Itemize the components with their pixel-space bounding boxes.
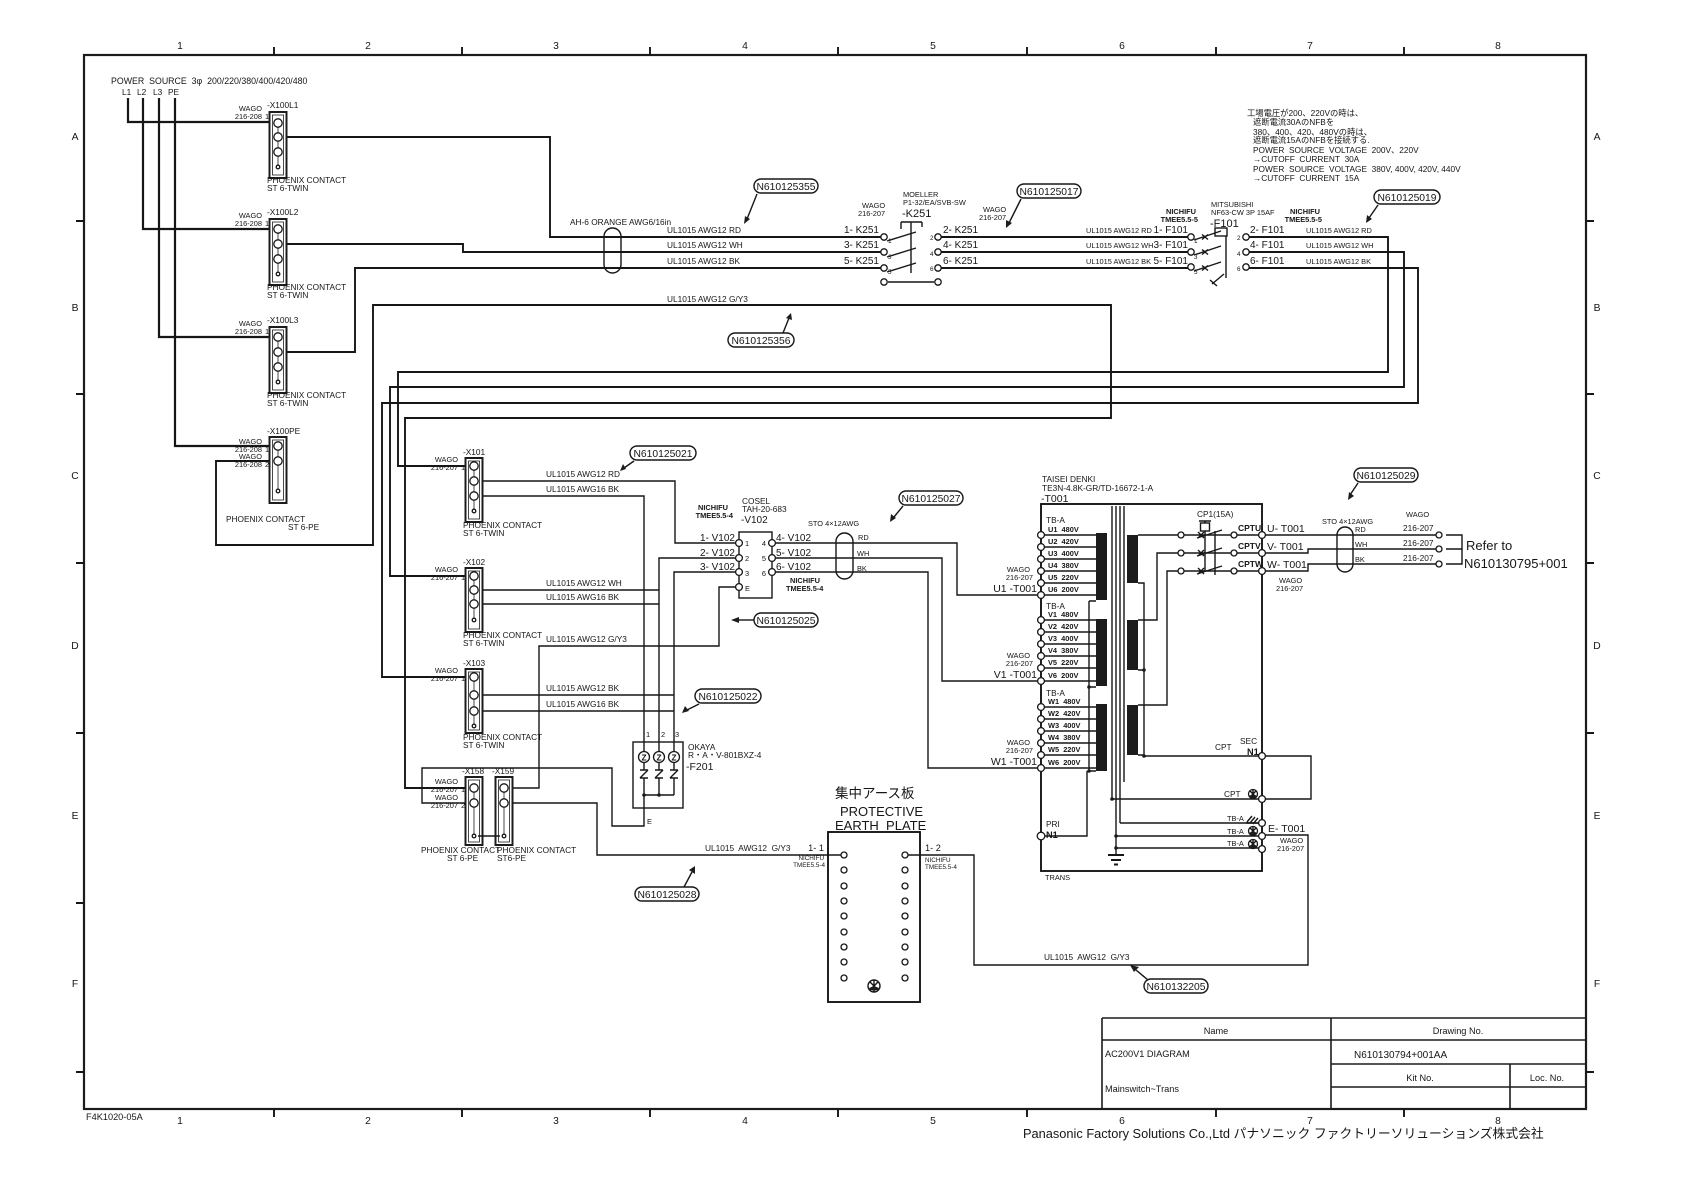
svg-text:Refer to: Refer to — [1466, 538, 1512, 553]
svg-text:216-207: 216-207 — [431, 573, 458, 582]
svg-text:216-207: 216-207 — [431, 463, 458, 472]
wago labels T001 U — [993, 565, 1037, 595]
title block — [1102, 1018, 1585, 1109]
svg-text:PROTECTIVE: PROTECTIVE — [840, 804, 923, 819]
svg-text:2: 2 — [461, 801, 465, 810]
svg-text:1- F101: 1- F101 — [1154, 225, 1189, 236]
wago 216-207 output labels — [1403, 510, 1434, 563]
svg-text:V1 480V: V1 480V — [1048, 610, 1078, 619]
svg-text:UL1015 AWG16 BK: UL1015 AWG16 BK — [546, 484, 619, 494]
wire X101 pin3 BK16 to F201 pin1 — [482, 496, 644, 752]
svg-text:216-208: 216-208 — [235, 112, 262, 121]
svg-text:-X100L2: -X100L2 — [267, 207, 299, 217]
svg-text:Panasonic Factory Solutions Co: Panasonic Factory Solutions Co.,Ltd パナソニ… — [1023, 1126, 1544, 1141]
connector X100L2 — [235, 207, 346, 300]
svg-text:TE3N-4.8K-GR/TD-16672-1-A: TE3N-4.8K-GR/TD-16672-1-A — [1042, 483, 1154, 493]
wire earth plate 1-2 to E-T001 — [908, 835, 1308, 965]
svg-text:Name: Name — [1204, 1026, 1229, 1036]
svg-text:NF63-CW 3P 15AF: NF63-CW 3P 15AF — [1211, 208, 1275, 217]
svg-text:U4 380V: U4 380V — [1048, 561, 1079, 570]
svg-text:5- K251: 5- K251 — [844, 256, 879, 267]
svg-text:集中アース板: 集中アース板 — [835, 786, 915, 801]
svg-text:E- T001: E- T001 — [1268, 823, 1305, 835]
svg-text:B: B — [1594, 303, 1601, 314]
svg-text:W1 -T001: W1 -T001 — [991, 756, 1037, 768]
svg-text:3- V102: 3- V102 — [700, 562, 735, 573]
connector X102 — [431, 557, 542, 648]
svg-text:V5 220V: V5 220V — [1048, 658, 1078, 667]
svg-text:TMEE5.5-4: TMEE5.5-4 — [696, 511, 734, 520]
wire W-T001 output — [1265, 564, 1436, 571]
svg-text:U- T001: U- T001 — [1267, 523, 1305, 535]
svg-text:D: D — [71, 641, 78, 652]
svg-text:→CUTOFF CURRENT 15A: →CUTOFF CURRENT 15A — [1253, 173, 1360, 183]
svg-text:2: 2 — [661, 730, 665, 739]
svg-text:E: E — [647, 817, 652, 826]
wire F101 output BK to X103 — [382, 268, 1418, 677]
svg-text:遮断電流30AのNFBを: 遮断電流30AのNFBを — [1253, 117, 1334, 127]
svg-text:216-207: 216-207 — [979, 213, 1006, 222]
svg-text:216-207: 216-207 — [1006, 573, 1033, 582]
svg-text:POWER SOURCE 3φ 200/220/380: POWER SOURCE 3φ 200/220/380/400/420/480 — [111, 76, 308, 86]
svg-text:UL1015 AWG12 BK: UL1015 AWG12 BK — [546, 683, 619, 693]
callout N610125029 — [1348, 468, 1418, 500]
svg-text:CPTV: CPTV — [1238, 541, 1261, 551]
svg-text:UL1015 AWG12 WH: UL1015 AWG12 WH — [1306, 241, 1374, 250]
svg-text:1: 1 — [177, 1116, 183, 1127]
svg-text:A: A — [1594, 132, 1601, 143]
wire X100L1 pin2 to K251 RD row — [284, 137, 881, 237]
cable marker STO 4x12AWG right — [1322, 517, 1373, 572]
svg-text:ST6-PE: ST6-PE — [497, 853, 527, 863]
wire F101 output RD to X101 — [398, 237, 1388, 466]
svg-text:4: 4 — [742, 41, 748, 52]
svg-text:W4 380V: W4 380V — [1048, 733, 1081, 742]
svg-text:N610125017: N610125017 — [1020, 187, 1079, 198]
svg-text:P1-32/EA/SVB-SW: P1-32/EA/SVB-SW — [903, 198, 966, 207]
svg-text:C: C — [71, 471, 79, 482]
svg-text:Z: Z — [671, 753, 676, 763]
svg-text:3- F101: 3- F101 — [1154, 240, 1189, 251]
wire X159 pin2 to earth plate — [512, 803, 841, 855]
svg-text:TB-A: TB-A — [1046, 515, 1065, 525]
svg-text:6- F101: 6- F101 — [1250, 256, 1285, 267]
output terminal circles — [1436, 532, 1442, 567]
transformer T001 outline — [1041, 474, 1262, 882]
refer to text — [1464, 538, 1568, 571]
svg-text:PRI: PRI — [1046, 819, 1060, 829]
svg-text:TMEE5.5-4: TMEE5.5-4 — [793, 862, 825, 869]
wire PE — [175, 98, 271, 446]
svg-text:N610125356: N610125356 — [732, 336, 791, 347]
svg-text:N610125022: N610125022 — [699, 692, 758, 703]
svg-text:5- F101: 5- F101 — [1154, 256, 1189, 267]
svg-text:UL1015 AWG12 WH: UL1015 AWG12 WH — [667, 240, 743, 250]
svg-text:E: E — [72, 811, 79, 822]
svg-text:W1 480V: W1 480V — [1048, 697, 1081, 706]
svg-text:UL1015 AWG12 WH: UL1015 AWG12 WH — [1086, 241, 1154, 250]
svg-text:TB-A: TB-A — [1227, 827, 1244, 836]
svg-text:Z: Z — [641, 753, 646, 763]
wire F201 E to X158 pin2 — [422, 768, 644, 826]
svg-text:N610132205: N610132205 — [1147, 982, 1206, 993]
callout N610125027 — [890, 491, 963, 522]
svg-text:1- 2: 1- 2 — [925, 843, 941, 853]
svg-text:UL1015 AWG16 BK: UL1015 AWG16 BK — [546, 699, 619, 709]
svg-text:L2: L2 — [137, 87, 147, 97]
wire F101 output WH to X102 — [390, 252, 1404, 576]
svg-text:TB-A: TB-A — [1227, 839, 1244, 848]
svg-text:U1 -T001: U1 -T001 — [993, 583, 1037, 595]
svg-text:V6 200V: V6 200V — [1048, 671, 1078, 680]
svg-text:AH-6 ORANGE AWG6/16in: AH-6 ORANGE AWG6/16in — [570, 217, 672, 227]
wire L2 — [143, 98, 271, 229]
svg-text:U6 200V: U6 200V — [1048, 585, 1079, 594]
wire X100PE pin2 protective earth loop G/Y3 — [216, 305, 1111, 788]
svg-text:Loc. No.: Loc. No. — [1530, 1073, 1564, 1083]
TB-A earth rows — [1116, 814, 1305, 853]
svg-text:UL1015 AWG12 G/Y3: UL1015 AWG12 G/Y3 — [667, 294, 748, 304]
svg-text:3- K251: 3- K251 — [844, 240, 879, 251]
svg-text:2: 2 — [365, 1116, 371, 1127]
svg-text:N610125019: N610125019 — [1378, 193, 1437, 204]
svg-text:TAH-20-683: TAH-20-683 — [742, 504, 787, 514]
earth plate terminal circles — [841, 852, 908, 981]
transformer output edge terminals — [1259, 532, 1266, 575]
svg-text:BK: BK — [1355, 555, 1365, 564]
svg-text:N610125029: N610125029 — [1357, 471, 1416, 482]
svg-text:1- 1: 1- 1 — [808, 843, 824, 853]
svg-text:6: 6 — [930, 266, 934, 273]
svg-text:CP1(15A): CP1(15A) — [1197, 509, 1234, 519]
svg-text:TMEE5.5-5: TMEE5.5-5 — [1161, 215, 1198, 224]
transformer TB-A U terminals — [1038, 515, 1096, 598]
svg-text:UL1015 AWG12 RD: UL1015 AWG12 RD — [1086, 226, 1152, 235]
svg-text:F4K1020-05A: F4K1020-05A — [86, 1112, 144, 1122]
svg-text:1: 1 — [461, 674, 465, 683]
svg-text:ST 6-TWIN: ST 6-TWIN — [463, 638, 504, 648]
svg-text:N610125027: N610125027 — [902, 494, 961, 505]
svg-text:1: 1 — [646, 730, 650, 739]
svg-text:216-208: 216-208 — [235, 460, 262, 469]
wire V102 pin4 RD to T001 U6 — [775, 543, 1037, 595]
svg-text:-X159: -X159 — [492, 766, 515, 776]
svg-text:N610130794+001AA: N610130794+001AA — [1354, 1050, 1447, 1061]
CPT row — [1112, 789, 1265, 802]
wire U-T001 output — [1265, 534, 1436, 536]
svg-text:4- F101: 4- F101 — [1250, 240, 1285, 251]
wire L3 — [159, 98, 271, 337]
svg-text:UL1015 AWG12 BK: UL1015 AWG12 BK — [667, 256, 740, 266]
svg-text:NICHIFU: NICHIFU — [798, 855, 824, 862]
callout N610125028 — [635, 866, 699, 901]
svg-text:F: F — [1594, 979, 1600, 990]
callout N610125019 — [1366, 190, 1440, 223]
earth plate ground terminal symbol — [868, 980, 880, 992]
connector X159 — [492, 766, 576, 863]
svg-text:1- V102: 1- V102 — [700, 533, 735, 544]
svg-text:N1: N1 — [1046, 830, 1058, 840]
svg-text:UL1015 AWG16 BK: UL1015 AWG16 BK — [546, 592, 619, 602]
svg-text:1: 1 — [265, 445, 269, 454]
svg-text:→CUTOFF CURRENT 30A: →CUTOFF CURRENT 30A — [1253, 154, 1360, 164]
callout N610125025 — [731, 613, 818, 627]
svg-text:E: E — [1594, 811, 1601, 822]
svg-text:WH: WH — [1355, 540, 1367, 549]
svg-text:TMEE5.5-4: TMEE5.5-4 — [925, 864, 957, 871]
svg-text:2: 2 — [1237, 235, 1241, 242]
svg-text:遮断電流15AのNFBを接続する.: 遮断電流15AのNFBを接続する. — [1253, 135, 1370, 145]
svg-text:4- K251: 4- K251 — [943, 240, 978, 251]
svg-text:1: 1 — [461, 463, 465, 472]
wago labels T001 W — [991, 738, 1037, 768]
svg-text:AC200V1 DIAGRAM: AC200V1 DIAGRAM — [1105, 1049, 1190, 1059]
power module V102 COSEL — [696, 496, 825, 598]
svg-text:5: 5 — [930, 41, 936, 52]
svg-text:L1: L1 — [122, 87, 132, 97]
svg-text:216-207: 216-207 — [1403, 523, 1434, 533]
svg-text:1: 1 — [265, 219, 269, 228]
svg-text:RD: RD — [1355, 525, 1366, 534]
svg-text:V3 400V: V3 400V — [1048, 634, 1078, 643]
svg-text:ST 6-TWIN: ST 6-TWIN — [267, 398, 308, 408]
wire X102 pin2 WH to V102 pin2 and F201 pin2 — [482, 558, 736, 753]
svg-text:W6 200V: W6 200V — [1048, 758, 1081, 767]
svg-text:UL1015 AWG12 RD: UL1015 AWG12 RD — [667, 225, 741, 235]
svg-text:TB-A: TB-A — [1227, 814, 1244, 823]
svg-text:216-207: 216-207 — [1277, 844, 1304, 853]
svg-text:2- F101: 2- F101 — [1250, 225, 1285, 236]
svg-text:UL1015 AWG12 G/Y3: UL1015 AWG12 G/Y3 — [705, 843, 791, 853]
svg-text:3: 3 — [745, 569, 749, 578]
svg-text:2: 2 — [930, 235, 934, 242]
wire X103 pin3 BK16 joins — [482, 710, 674, 712]
svg-text:1: 1 — [461, 573, 465, 582]
svg-text:ST 6-PE: ST 6-PE — [288, 522, 320, 532]
svg-text:EARTH PLATE: EARTH PLATE — [835, 818, 927, 833]
svg-text:1: 1 — [745, 539, 749, 548]
svg-text:-X100PE: -X100PE — [267, 426, 301, 436]
svg-text:UL1015 AWG12 WH: UL1015 AWG12 WH — [546, 578, 622, 588]
svg-text:U5 220V: U5 220V — [1048, 573, 1079, 582]
cable marker AH-6 ORANGE — [570, 217, 672, 273]
svg-text:2: 2 — [265, 460, 269, 469]
svg-text:N610125028: N610125028 — [638, 890, 697, 901]
svg-text:RD: RD — [858, 533, 869, 542]
svg-text:4: 4 — [1237, 251, 1241, 258]
svg-text:B: B — [72, 303, 79, 314]
wire K251 to F101 RD — [941, 236, 1188, 238]
svg-text:216-207: 216-207 — [431, 801, 458, 810]
svg-text:C: C — [1593, 471, 1601, 482]
svg-text:E: E — [745, 584, 750, 593]
svg-text:-X102: -X102 — [463, 557, 486, 567]
svg-text:-X101: -X101 — [463, 447, 486, 457]
circuit protector CP1 — [1178, 509, 1264, 575]
svg-text:STO 4×12AWG: STO 4×12AWG — [808, 519, 859, 528]
svg-text:4: 4 — [742, 1116, 748, 1127]
callout N610125021 — [620, 446, 696, 471]
wire V102 pin6 BK to T001 W6 — [775, 572, 1037, 768]
transformer TB-A W terminals — [1038, 688, 1096, 771]
svg-text:3: 3 — [675, 730, 679, 739]
wago labels T001 V — [994, 651, 1037, 681]
surge filter F201 — [633, 730, 762, 826]
svg-text:1: 1 — [177, 41, 183, 52]
svg-text:N610125021: N610125021 — [634, 449, 693, 460]
column numbers top — [177, 41, 1501, 52]
svg-text:PE: PE — [168, 87, 180, 97]
svg-text:W2 420V: W2 420V — [1048, 709, 1081, 718]
svg-text:R・A・V-801BXZ-4: R・A・V-801BXZ-4 — [688, 750, 762, 760]
svg-text:3: 3 — [553, 1116, 559, 1127]
output labels T001 — [1267, 523, 1307, 593]
transformer secondary windings — [1127, 535, 1138, 755]
svg-text:ST 6-TWIN: ST 6-TWIN — [267, 183, 308, 193]
svg-text:V4 380V: V4 380V — [1048, 646, 1078, 655]
svg-text:NICHIFU: NICHIFU — [925, 857, 951, 864]
svg-text:4: 4 — [930, 251, 934, 258]
svg-text:UL1015 AWG12 BK: UL1015 AWG12 BK — [1086, 257, 1151, 266]
connector X101 — [431, 447, 542, 538]
svg-text:N610130795+001: N610130795+001 — [1464, 556, 1568, 571]
svg-text:UL1015 AWG12 BK: UL1015 AWG12 BK — [1306, 257, 1371, 266]
row letters right — [1593, 132, 1601, 990]
connector X100L3 — [235, 315, 346, 408]
bracket to refer — [1446, 535, 1462, 564]
svg-text:A: A — [72, 132, 79, 143]
transformer core — [1112, 506, 1124, 855]
transformer TB-A V terminals — [1038, 601, 1096, 684]
wire X102 pin3 BK16 joins — [482, 603, 659, 605]
svg-text:WH: WH — [857, 549, 869, 558]
callout N610125022 — [682, 689, 761, 713]
svg-text:WAGO: WAGO — [1406, 510, 1429, 519]
svg-text:U3 400V: U3 400V — [1048, 549, 1079, 558]
wire V102 E to X159 pin1 G/Y3 — [507, 587, 739, 788]
connector X103 — [431, 658, 542, 750]
svg-text:U1 480V: U1 480V — [1048, 525, 1079, 534]
svg-text:3: 3 — [553, 41, 559, 52]
svg-text:2: 2 — [745, 554, 749, 563]
svg-text:V1 -T001: V1 -T001 — [994, 669, 1037, 681]
svg-text:TRANS: TRANS — [1045, 873, 1070, 882]
svg-text:Mainswitch~Trans: Mainswitch~Trans — [1105, 1084, 1179, 1094]
svg-text:ST 6-TWIN: ST 6-TWIN — [463, 528, 504, 538]
svg-text:CPT: CPT — [1224, 789, 1241, 799]
wire X103 pin2 BK to V102 pin3 and F201 pin3 — [482, 572, 736, 752]
wire K251 to F101 WH — [941, 251, 1188, 253]
power source label — [111, 76, 308, 97]
svg-text:Drawing No.: Drawing No. — [1433, 1026, 1484, 1036]
row letters left — [71, 132, 79, 990]
svg-text:CPT: CPT — [1215, 742, 1232, 752]
svg-text:L3: L3 — [153, 87, 163, 97]
svg-text:216-207: 216-207 — [431, 674, 458, 683]
svg-text:2- K251: 2- K251 — [943, 225, 978, 236]
svg-text:W5 220V: W5 220V — [1048, 745, 1081, 754]
svg-text:216-207: 216-207 — [1276, 584, 1303, 593]
svg-text:4: 4 — [762, 539, 766, 548]
callout N610125355 — [744, 179, 818, 224]
wire X101 pin2 RD to V102 pin1 — [482, 481, 736, 543]
transformer PRI N1 terminal — [1037, 771, 1087, 840]
svg-text:1: 1 — [265, 327, 269, 336]
transformer ground — [1108, 797, 1124, 864]
svg-text:W- T001: W- T001 — [1267, 559, 1307, 571]
svg-text:-K251: -K251 — [902, 208, 931, 220]
svg-text:-X103: -X103 — [463, 658, 486, 668]
svg-text:SEC: SEC — [1240, 736, 1257, 746]
svg-text:ST 6-TWIN: ST 6-TWIN — [463, 740, 504, 750]
svg-text:6- K251: 6- K251 — [943, 256, 978, 267]
svg-text:N610125025: N610125025 — [757, 616, 816, 627]
wire V-T001 output — [1265, 549, 1436, 553]
svg-text:216-207: 216-207 — [1006, 746, 1033, 755]
svg-text:2- V102: 2- V102 — [700, 548, 735, 559]
SEC N1 row and CPT loop — [1144, 736, 1311, 799]
svg-text:F: F — [72, 979, 78, 990]
svg-text:UL1015 AWG12 G/Y3: UL1015 AWG12 G/Y3 — [1044, 952, 1130, 962]
svg-text:6: 6 — [762, 569, 766, 578]
svg-text:216-207: 216-207 — [1403, 553, 1434, 563]
svg-text:216-207: 216-207 — [1006, 659, 1033, 668]
svg-text:-X158: -X158 — [462, 766, 485, 776]
connector X100L1 — [235, 100, 346, 193]
svg-text:216-208: 216-208 — [235, 327, 262, 336]
svg-text:-X100L1: -X100L1 — [267, 100, 299, 110]
callout N610125356 — [728, 313, 794, 347]
connector X100PE — [226, 426, 320, 532]
svg-text:Kit No.: Kit No. — [1406, 1073, 1434, 1083]
svg-text:-F201: -F201 — [686, 761, 714, 773]
svg-text:BK: BK — [857, 564, 867, 573]
svg-text:ST 6-TWIN: ST 6-TWIN — [267, 290, 308, 300]
svg-text:UL1015 AWG12 RD: UL1015 AWG12 RD — [1306, 226, 1372, 235]
svg-text:ST 6-PE: ST 6-PE — [447, 853, 479, 863]
svg-text:6: 6 — [1119, 41, 1125, 52]
svg-text:1: 1 — [265, 112, 269, 121]
callout N610125017 — [1006, 184, 1081, 228]
svg-text:U2 420V: U2 420V — [1048, 537, 1079, 546]
svg-text:5: 5 — [930, 1116, 936, 1127]
svg-text:-V102: -V102 — [741, 515, 768, 526]
svg-text:216-207: 216-207 — [1403, 538, 1434, 548]
wire V102 pin5 WH to T001 V6 — [775, 558, 1037, 681]
svg-text:CPTU: CPTU — [1238, 523, 1261, 533]
svg-text:216-208: 216-208 — [235, 219, 262, 228]
svg-text:Z: Z — [656, 753, 661, 763]
svg-text:TMEE5.5-4: TMEE5.5-4 — [786, 584, 824, 593]
transformer primary windings — [1087, 533, 1107, 773]
svg-text:7: 7 — [1307, 41, 1313, 52]
callout N610132205 — [1130, 965, 1208, 993]
svg-text:2: 2 — [365, 41, 371, 52]
svg-text:216-207: 216-207 — [858, 209, 885, 218]
wire K251 to F101 BK — [941, 267, 1188, 269]
protective earth plate — [793, 786, 957, 1002]
svg-text:V2 420V: V2 420V — [1048, 622, 1078, 631]
svg-text:1: 1 — [461, 785, 465, 794]
svg-text:D: D — [1593, 641, 1600, 652]
svg-text:UL1015 AWG12 G/Y3: UL1015 AWG12 G/Y3 — [546, 634, 627, 644]
column numbers bottom — [177, 1116, 1501, 1127]
wire X100L3 pin2 to K251 BK row — [284, 268, 881, 352]
wire X158-X159 bottom link — [478, 835, 500, 837]
note text japanese — [1247, 108, 1461, 183]
secondary connection wires — [1138, 535, 1178, 758]
svg-text:5: 5 — [762, 554, 766, 563]
